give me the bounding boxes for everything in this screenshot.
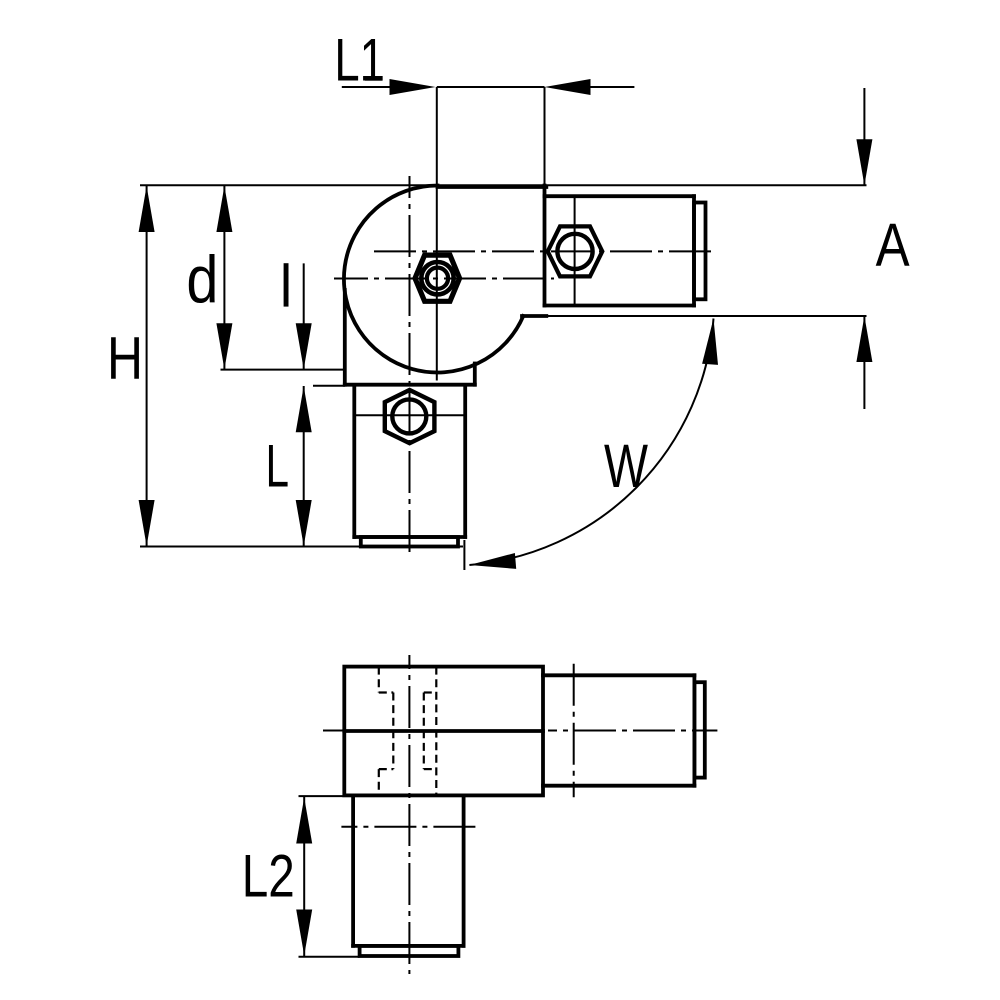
set screw U2 circle: [557, 234, 592, 269]
right end cap: [694, 203, 706, 300]
svg-text:L: L: [265, 432, 289, 500]
set screw U1 outer circle: [421, 262, 453, 294]
vertical tube end cap: [361, 537, 458, 547]
lower flange right edge: [473, 364, 477, 385]
svg-text:d: d: [186, 243, 218, 318]
body top edge: [438, 185, 547, 189]
centerline vertical tube axis: [408, 655, 410, 974]
set screw U3 (vertical tube) hexagon: [385, 390, 435, 443]
side tube end cap: [360, 946, 459, 956]
svg-text:A: A: [876, 211, 910, 279]
svg-text:H: H: [107, 325, 143, 392]
W target tick: [463, 540, 465, 570]
hidden bore right outer: [435, 667, 437, 796]
side tube bottom edge: [353, 944, 464, 948]
hidden step top: [379, 691, 394, 693]
screw axis on tube: [341, 826, 476, 828]
side tube right edge: [462, 795, 466, 946]
hidden bore left inner: [392, 693, 394, 770]
extension line top (H/A): [140, 184, 867, 186]
body bottom-right edge: [522, 314, 546, 318]
centerline right cylinder axis: [548, 730, 717, 732]
set screw U3 circle: [392, 399, 426, 433]
svg-text:W: W: [604, 432, 648, 500]
side tube left edge: [351, 795, 355, 946]
centerline boss axis vertical / L1 extension: [436, 87, 438, 381]
body right edge: [543, 186, 547, 306]
side end cap: [694, 682, 704, 777]
side cylinder bottom edge: [543, 784, 694, 788]
extension line A bottom: [548, 315, 867, 317]
dimension A: [856, 88, 909, 409]
centerline stub left: [323, 730, 344, 732]
dimension L2: [242, 796, 360, 957]
svg-text:L2: L2: [242, 842, 295, 910]
lower flange left edge: [343, 290, 347, 385]
dimension d: [186, 185, 232, 369]
dimension L: [265, 386, 311, 547]
body circular boss arc: [344, 185, 523, 372]
screw axis on cylinder: [573, 664, 575, 797]
set screw U1 (center boss) hexagon: [415, 255, 460, 301]
dimension I: [284, 263, 312, 369]
extension line d/I bottom: [221, 369, 346, 371]
right cylinder top edge: [545, 194, 695, 198]
hidden step bottom: [379, 768, 394, 770]
extension line bottom (H/L): [140, 546, 463, 548]
body parting line: [344, 729, 543, 733]
dimension L1: [334, 26, 634, 185]
centerline vertical tube axis: [409, 176, 411, 556]
vertical tube bottom edge: [354, 535, 465, 539]
set screw U2 (right cylinder) hexagon: [548, 226, 603, 276]
hidden bore left outer: [379, 667, 437, 796]
right cylinder bottom edge: [545, 304, 695, 308]
hidden bore right inner: [423, 693, 425, 770]
square body: [344, 667, 543, 796]
side cylinder top edge: [543, 673, 694, 677]
vertical tube right edge: [463, 386, 467, 537]
centerline boss axis horizontal: [334, 278, 554, 280]
dimension W angle arc: [464, 319, 718, 571]
centerline horizontal cylinder axis: [374, 250, 717, 252]
extension line L top stub: [313, 385, 345, 387]
set screw U1 inner circle: [427, 268, 448, 289]
right cylinder end edge: [692, 196, 696, 305]
dimension H: [107, 185, 155, 546]
right cylinder boss line: [574, 196, 576, 305]
side cylinder end edge: [693, 675, 697, 785]
lower flange bottom edge: [345, 383, 475, 387]
vertical tube left edge: [352, 386, 356, 537]
vertical tube boss line: [354, 414, 465, 416]
svg-text:L1: L1: [334, 26, 385, 94]
